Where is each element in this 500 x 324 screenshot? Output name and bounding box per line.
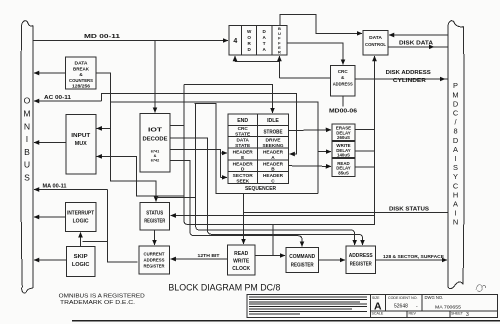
wire MA 00-11 bbox=[34, 189, 108, 191]
svg-text:DECODE: DECODE bbox=[143, 137, 169, 143]
svg-text:HEADER: HEADER bbox=[263, 173, 284, 178]
svg-text:A: A bbox=[453, 200, 458, 209]
svg-text:CODE IDENT NO.: CODE IDENT NO. bbox=[388, 296, 418, 300]
svg-text:MA 00-11: MA 00-11 bbox=[43, 184, 67, 190]
svg-text:B: B bbox=[24, 147, 30, 157]
wire IOT right channel 3 bbox=[170, 160, 302, 246]
svg-text:Y: Y bbox=[453, 172, 458, 181]
svg-text:STATE: STATE bbox=[235, 132, 250, 137]
svg-text:REGISTER: REGISTER bbox=[144, 264, 166, 269]
wire input mux to bus bbox=[34, 142, 66, 144]
wire MA to current address register bbox=[108, 190, 138, 262]
wire status register feed bbox=[171, 215, 375, 217]
svg-text:85uS: 85uS bbox=[338, 170, 349, 175]
svg-text:REGISTER: REGISTER bbox=[291, 263, 314, 269]
block CRC and address bbox=[331, 66, 356, 96]
block read write clock bbox=[228, 245, 256, 275]
wire command to address register bbox=[319, 259, 346, 261]
wire CRC bottom stub MD00-06 bbox=[342, 96, 344, 107]
svg-text:I: I bbox=[454, 154, 456, 163]
svg-text:6742: 6742 bbox=[151, 159, 159, 163]
wire interrupt to bus bbox=[34, 216, 66, 218]
svg-text:READ: READ bbox=[234, 251, 249, 257]
svg-text:/: / bbox=[454, 118, 457, 127]
svg-text:T: T bbox=[263, 41, 266, 46]
wire idle feed bbox=[184, 85, 273, 113]
wire AC to header A bbox=[101, 94, 296, 155]
block address register bbox=[346, 246, 376, 273]
wire buffer to CRC box bbox=[278, 56, 280, 78]
svg-text:S: S bbox=[453, 163, 458, 172]
svg-text:AC 00-11: AC 00-11 bbox=[44, 95, 71, 101]
svg-text:D: D bbox=[263, 29, 267, 34]
svg-text:&: & bbox=[79, 72, 83, 78]
svg-text:MD00-06: MD00-06 bbox=[329, 109, 357, 115]
svg-text:MUX: MUX bbox=[75, 141, 88, 147]
sequencer outer enclosure bbox=[195, 104, 319, 194]
svg-text:REGISTER: REGISTER bbox=[350, 262, 372, 268]
svg-text:END: END bbox=[237, 118, 248, 124]
svg-text:STATUS: STATUS bbox=[146, 211, 164, 217]
svg-text:REV: REV bbox=[409, 312, 417, 316]
block IOT decode bbox=[140, 114, 170, 173]
block read delay bbox=[332, 159, 355, 177]
wire buffer bottom loop bbox=[234, 56, 236, 62]
svg-text:CRC: CRC bbox=[338, 69, 349, 74]
svg-text:COMMAND: COMMAND bbox=[289, 254, 315, 260]
svg-text:-: - bbox=[416, 304, 418, 310]
svg-text:HEADER: HEADER bbox=[233, 161, 254, 166]
block status register bbox=[140, 203, 170, 231]
svg-text:SCALE: SCALE bbox=[372, 312, 384, 316]
svg-text:W: W bbox=[247, 29, 252, 34]
table sequencer bbox=[228, 114, 289, 183]
label disk address cylinder bbox=[386, 70, 431, 84]
svg-text:SHEET: SHEET bbox=[451, 312, 464, 316]
block skip logic bbox=[66, 246, 95, 276]
svg-text:CURRENT: CURRENT bbox=[144, 252, 165, 257]
label omnibus trademark bbox=[59, 294, 145, 306]
wire delay outputs to data control vertical bbox=[355, 129, 375, 166]
svg-text:SEEKING: SEEKING bbox=[263, 143, 284, 148]
svg-text:H: H bbox=[453, 190, 458, 199]
svg-text:REGISTER: REGISTER bbox=[144, 219, 165, 225]
svg-text:WRITE: WRITE bbox=[233, 259, 250, 265]
svg-text:TRADEMARK OF D.E.C.: TRADEMARK OF D.E.C. bbox=[60, 300, 135, 306]
svg-text:SEEK: SEEK bbox=[236, 178, 249, 183]
wire disk data out bbox=[388, 46, 434, 48]
svg-text:A: A bbox=[263, 35, 267, 40]
wire disk address cylinder bbox=[355, 78, 445, 80]
svg-text:DISK ADDRESS: DISK ADDRESS bbox=[386, 70, 431, 76]
scan artifact bottom edge bbox=[72, 320, 500, 322]
block data break counters bbox=[66, 57, 97, 89]
svg-text:N: N bbox=[453, 218, 458, 227]
wire 12th bit bbox=[171, 258, 228, 260]
svg-text:DATA: DATA bbox=[75, 61, 89, 67]
svg-text:SIZE: SIZE bbox=[372, 296, 380, 300]
handwritten mark bbox=[476, 285, 486, 292]
svg-text:HEADER: HEADER bbox=[263, 150, 284, 155]
wire skip to bus bbox=[34, 259, 66, 261]
wire strobe to erase delay bbox=[289, 129, 331, 132]
title block size cell bbox=[372, 296, 382, 313]
wire header B to read delay bbox=[289, 165, 331, 168]
wire MA branch to skip-interrupt bbox=[83, 240, 108, 242]
svg-text:DISK DATA: DISK DATA bbox=[399, 41, 433, 47]
svg-text:COUNTERS: COUNTERS bbox=[69, 78, 94, 84]
svg-text:3: 3 bbox=[466, 312, 469, 318]
svg-text:C: C bbox=[453, 181, 459, 190]
omnibus bus bar bbox=[21, 21, 33, 293]
svg-text:MA 700655: MA 700655 bbox=[435, 305, 461, 311]
svg-text:I: I bbox=[26, 134, 28, 144]
svg-text:BLOCK DIAGRAM PM DC/8: BLOCK DIAGRAM PM DC/8 bbox=[168, 283, 280, 293]
wire header E feed bbox=[221, 152, 228, 154]
svg-text:HEADER: HEADER bbox=[263, 161, 284, 166]
svg-text:128 & SECTOR, SURFACE: 128 & SECTOR, SURFACE bbox=[383, 254, 445, 260]
block erase delay bbox=[332, 124, 355, 141]
svg-text:LOGIC: LOGIC bbox=[73, 219, 89, 225]
wire MD 00-11 bus to buffer bbox=[33, 40, 228, 42]
block write delay bbox=[332, 141, 355, 157]
svg-text:128/256: 128/256 bbox=[72, 84, 90, 90]
svg-text:&: & bbox=[341, 75, 345, 80]
wire IOT right channel 2 bbox=[170, 138, 363, 245]
node MD drop to IOT decode bbox=[154, 41, 156, 113]
svg-text:B: B bbox=[271, 167, 275, 172]
block command register bbox=[286, 248, 319, 273]
svg-text:ADDRESS: ADDRESS bbox=[333, 82, 353, 87]
title block dwg no bbox=[425, 295, 462, 311]
title block code ident bbox=[388, 296, 418, 310]
svg-text:INPUT: INPUT bbox=[71, 133, 90, 139]
svg-text:6741: 6741 bbox=[151, 150, 159, 154]
wire staircase to status register top bbox=[111, 128, 157, 201]
svg-text:SEQUENCER: SEQUENCER bbox=[245, 186, 276, 192]
wire write delay input bbox=[318, 151, 331, 153]
svg-text:IDLE: IDLE bbox=[267, 118, 279, 124]
svg-text:C: C bbox=[453, 109, 459, 118]
wire buffer right to CRC top bbox=[287, 43, 343, 65]
svg-text:4: 4 bbox=[233, 38, 237, 45]
svg-text:8: 8 bbox=[453, 127, 457, 136]
svg-text:LOGIC: LOGIC bbox=[72, 262, 90, 268]
svg-text:SECTOR: SECTOR bbox=[233, 173, 254, 178]
title block notice text bbox=[249, 297, 367, 314]
svg-text:DATA: DATA bbox=[237, 138, 250, 143]
wire AC 00-11 bbox=[34, 100, 101, 102]
svg-text:D: D bbox=[453, 136, 458, 145]
title block frame bbox=[247, 295, 498, 318]
svg-text:R: R bbox=[248, 41, 252, 46]
wire status to current address register bbox=[154, 230, 156, 245]
PM DC/8 daisy chain bar bbox=[448, 21, 464, 289]
svg-text:DISK STATUS: DISK STATUS bbox=[389, 207, 429, 213]
svg-text:U: U bbox=[24, 160, 30, 170]
svg-text:DATA: DATA bbox=[369, 35, 382, 41]
wire into input mux lower bbox=[97, 156, 184, 196]
wire status top branch to channel bbox=[156, 196, 196, 198]
wire channel vertical to data control bbox=[184, 56, 375, 225]
svg-text:ADDRESS: ADDRESS bbox=[349, 253, 374, 259]
wire skip to interrupt bbox=[80, 232, 82, 246]
svg-text:P: P bbox=[453, 81, 458, 90]
wire disk status bbox=[244, 194, 449, 213]
svg-text:CRC: CRC bbox=[238, 126, 249, 131]
title block scale rev sheet bbox=[372, 312, 470, 319]
wire md bits to write delay bbox=[111, 102, 319, 194]
wire address register to bar bbox=[376, 259, 448, 261]
svg-text:M: M bbox=[23, 109, 30, 119]
svg-text:MD 00-11: MD 00-11 bbox=[84, 34, 121, 40]
svg-text:A: A bbox=[453, 145, 458, 154]
svg-text:IOT: IOT bbox=[148, 128, 163, 134]
wire sector seek feed bbox=[221, 176, 228, 178]
svg-text:R: R bbox=[278, 50, 281, 55]
svg-text:N: N bbox=[24, 121, 30, 131]
svg-text:12TH BIT: 12TH BIT bbox=[198, 253, 220, 259]
svg-text:O: O bbox=[24, 96, 31, 106]
wire IOT stub 1 bbox=[170, 125, 184, 127]
svg-text:OMNIBUS IS A REGISTERED: OMNIBUS IS A REGISTERED bbox=[59, 294, 145, 300]
svg-text:SKIP: SKIP bbox=[74, 254, 89, 260]
svg-text:STROBE: STROBE bbox=[264, 130, 283, 136]
block data control bbox=[363, 31, 388, 55]
svg-text:BREAK: BREAK bbox=[73, 67, 89, 73]
svg-text:INTERRUPT: INTERRUPT bbox=[67, 211, 94, 217]
block current address register bbox=[139, 246, 170, 274]
svg-text:ADDRESS: ADDRESS bbox=[144, 258, 165, 263]
svg-text:140uS: 140uS bbox=[337, 153, 350, 158]
svg-text:D: D bbox=[453, 99, 458, 108]
svg-text:A: A bbox=[271, 155, 275, 160]
svg-text:C: C bbox=[271, 178, 275, 183]
svg-text:260uS: 260uS bbox=[337, 135, 350, 140]
svg-text:CLOCK: CLOCK bbox=[232, 266, 250, 272]
svg-text:S: S bbox=[24, 173, 30, 183]
svg-text:DWG NO.: DWG NO. bbox=[425, 295, 444, 300]
svg-text:CYLINDER: CYLINDER bbox=[393, 78, 426, 84]
wire drop to command left bbox=[272, 225, 274, 256]
svg-text:52648: 52648 bbox=[394, 304, 408, 310]
wire data break to bus bbox=[34, 72, 66, 74]
wire IOT to sequencer left feeds bbox=[170, 150, 221, 178]
svg-text:&: & bbox=[154, 154, 157, 158]
block input mux bbox=[66, 114, 96, 174]
wire channel vertical x195 bbox=[196, 104, 355, 246]
svg-text:I: I bbox=[454, 209, 456, 218]
svg-text:O: O bbox=[247, 35, 251, 40]
omnibus label bbox=[23, 96, 30, 183]
wire drop to read write clock bbox=[243, 213, 245, 245]
svg-text:STATE: STATE bbox=[235, 143, 250, 148]
register 4-word data buffer bbox=[229, 25, 287, 55]
svg-text:D: D bbox=[241, 167, 245, 172]
svg-text:E: E bbox=[241, 155, 244, 160]
wire data break to input mux bbox=[96, 73, 111, 128]
svg-text:DRIVE: DRIVE bbox=[266, 138, 281, 143]
PM DC/8 daisy chain label bbox=[452, 81, 458, 227]
svg-text:HEADER: HEADER bbox=[233, 150, 254, 155]
wire disk data in bbox=[389, 34, 448, 36]
block interrupt logic bbox=[66, 203, 96, 232]
wire buffer top to data control bbox=[280, 14, 362, 33]
svg-text:M: M bbox=[452, 90, 458, 99]
svg-text:D: D bbox=[248, 47, 252, 52]
svg-text:CONTROL: CONTROL bbox=[365, 42, 386, 48]
svg-text:A: A bbox=[263, 47, 267, 52]
wire rwc to command register bbox=[255, 255, 285, 257]
